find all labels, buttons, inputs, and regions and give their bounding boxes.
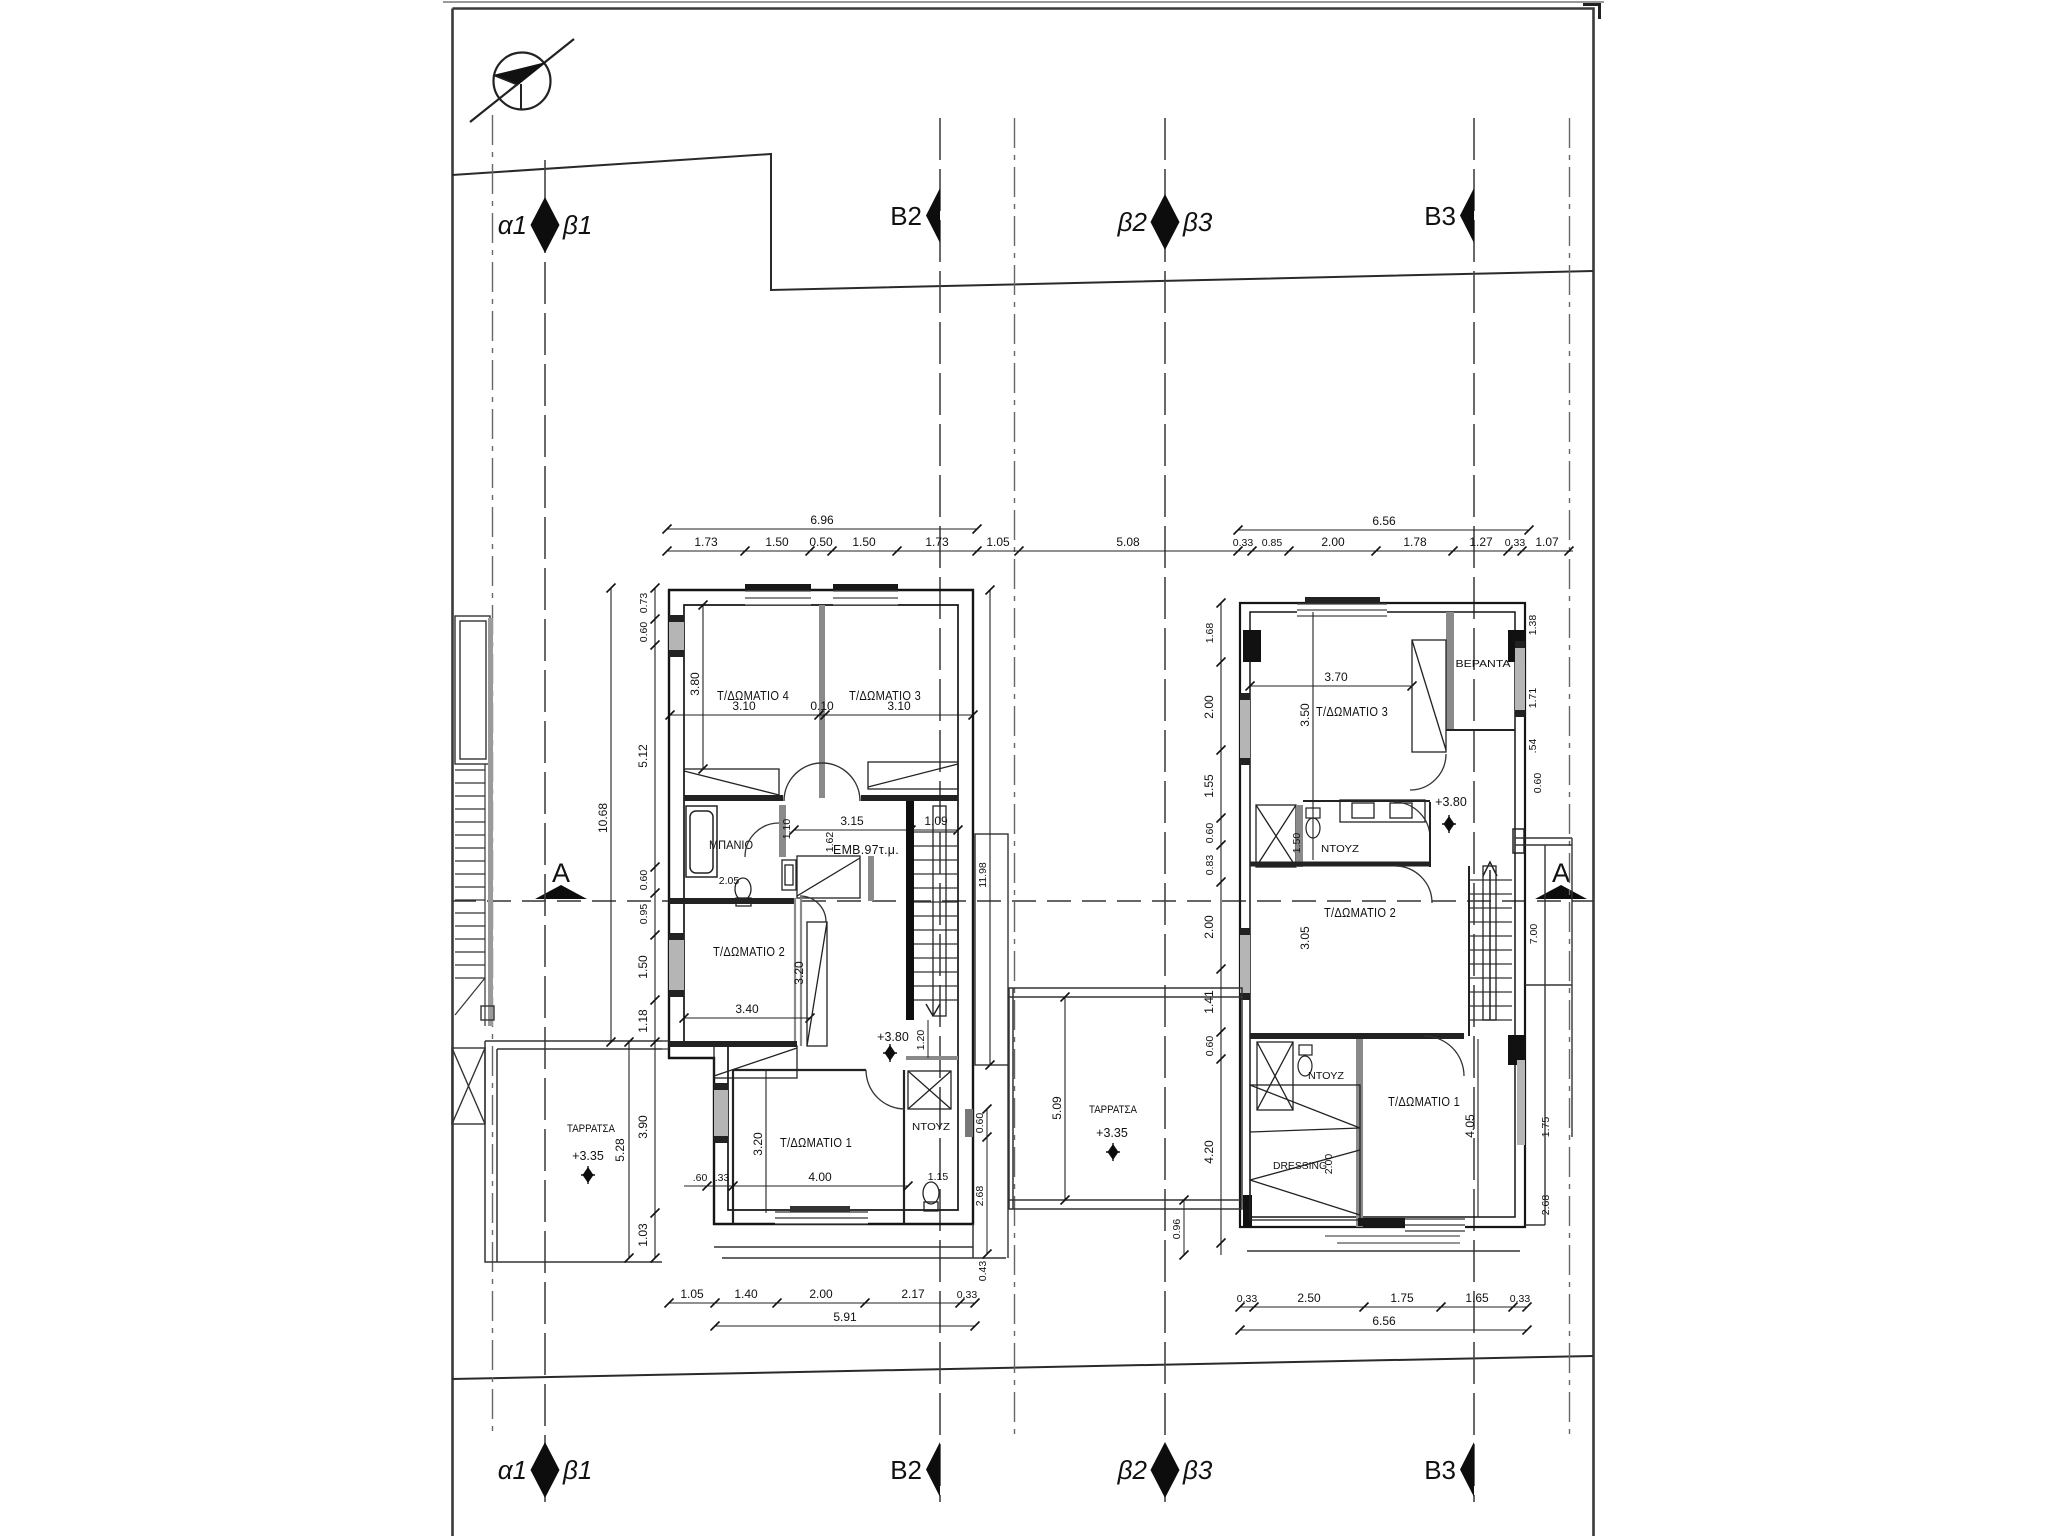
house1 stair shaft left wall [906, 801, 914, 1020]
dim chain house1 top [663, 535, 1024, 556]
svg-text:5.91: 5.91 [833, 1310, 857, 1324]
svg-text:1.40: 1.40 [734, 1287, 758, 1301]
svg-text:3.05: 3.05 [1298, 926, 1312, 950]
svg-text:0.73: 0.73 [638, 593, 650, 614]
house2 room3 dim 3.50 rotated [1298, 612, 1313, 860]
house1 room2 right wall double [795, 898, 801, 1046]
svg-text:4.05: 4.05 [1463, 1114, 1477, 1138]
svg-text:0.33: 0.33 [1510, 1293, 1531, 1305]
dim 10.68 [596, 584, 616, 1047]
house2 stair left wall [1468, 866, 1470, 1036]
house1 room2 dim 3.40 [680, 1002, 815, 1023]
svg-text:1.50: 1.50 [636, 955, 650, 979]
house2 room3 door arc [1410, 754, 1446, 790]
svg-text:3.10: 3.10 [732, 699, 756, 713]
svg-text:Τ/ΔΩΜΑΤΙΟ 3: Τ/ΔΩΜΑΤΙΟ 3 [1316, 705, 1388, 719]
house2 wc lower [1298, 1045, 1312, 1076]
svg-text:1.20: 1.20 [915, 1030, 927, 1051]
house1 closet room3 [868, 762, 958, 789]
svg-text:0.83: 0.83 [1204, 855, 1216, 876]
house1 outer wall outline [669, 590, 973, 1224]
svg-text:ΤΑΡΡΑΤΣΑ: ΤΑΡΡΑΤΣΑ [1089, 1104, 1138, 1116]
house2 wall above room1 [1250, 1033, 1464, 1039]
house1 top wall window 1 [745, 584, 811, 605]
svg-text:0.96: 0.96 [1171, 1219, 1183, 1240]
svg-text:4.20: 4.20 [1202, 1140, 1216, 1164]
house2 right eave lines [1515, 837, 1572, 839]
house2 veranda window right [1515, 641, 1525, 717]
svg-text:+3.80: +3.80 [1435, 795, 1467, 809]
house2 room2 door arc [1395, 866, 1432, 903]
svg-text:0.10: 0.10 [810, 699, 834, 713]
house1 interior dim 3.10/0.10/3.10 [666, 699, 978, 720]
house1 closet room4 [684, 769, 779, 796]
svg-text:0.33: 0.33 [1233, 537, 1254, 549]
left closet X [452, 1048, 485, 1124]
svg-text:ΒΕΡΑΝΤΑ: ΒΕΡΑΝΤΑ [1456, 658, 1511, 670]
axis grid line beta2-beta3 x=1165 [1164, 118, 1166, 1502]
house1 closet band between room2 and room1 [714, 1046, 797, 1078]
house2 right balcony strip [1525, 845, 1572, 1225]
house1 hall wall seg [868, 856, 874, 901]
left chain ticks [636, 584, 660, 1263]
svg-text:0.33: 0.33 [1237, 1293, 1258, 1305]
house1 wc bottom [923, 1182, 939, 1211]
svg-text:B2: B2 [890, 1455, 922, 1485]
svg-text:3.15: 3.15 [840, 814, 864, 828]
svg-text:1.68: 1.68 [1204, 623, 1216, 644]
house1 left wall window room4 [669, 615, 684, 657]
house1 room1 walls [733, 1070, 904, 1224]
svg-text:1.50: 1.50 [852, 535, 876, 549]
svg-text:1.41: 1.41 [1202, 990, 1216, 1014]
house2 basin counter [1340, 800, 1425, 822]
svg-text:1.15: 1.15 [928, 1171, 949, 1183]
svg-text:2.50: 2.50 [1297, 1291, 1321, 1305]
svg-text:B3: B3 [1424, 1455, 1456, 1485]
house2 top wall window [1297, 597, 1387, 616]
svg-text:1.07: 1.07 [1535, 535, 1559, 549]
svg-text:1.65: 1.65 [1465, 1291, 1489, 1305]
svg-text:ΝΤΟΥΖ: ΝΤΟΥΖ [1321, 844, 1359, 855]
svg-text:4.00: 4.00 [808, 1170, 832, 1184]
house1 hall dim 3.15 / 1.09 [790, 814, 963, 835]
svg-text:B2: B2 [890, 201, 922, 231]
house1 hall-room2 door arc [800, 896, 826, 922]
north arrow [470, 39, 574, 122]
svg-text:1.50: 1.50 [1291, 833, 1303, 854]
svg-text:2.00: 2.00 [809, 1287, 833, 1301]
house1 bathroom door arc [745, 823, 779, 857]
svg-text:2.00: 2.00 [1202, 695, 1216, 719]
svg-text:5.28: 5.28 [613, 1138, 627, 1162]
house1 bathroom basin [782, 860, 796, 890]
svg-text:0.60: 0.60 [1204, 823, 1216, 844]
dim chain house1 bottom [665, 1287, 980, 1308]
svg-text:Τ/ΔΩΜΑΤΙΟ 2: Τ/ΔΩΜΑΤΙΟ 2 [713, 945, 785, 959]
house2 left wall window room3 [1240, 693, 1250, 765]
svg-text:3.80: 3.80 [688, 672, 702, 696]
dim 5.28 terrace [613, 1038, 634, 1263]
svg-text:ΤΑΡΡΑΤΣΑ: ΤΑΡΡΑΤΣΑ [567, 1123, 616, 1135]
left balcony top [455, 616, 490, 764]
house1 right overall dim 11.98 [977, 586, 995, 1070]
svg-text:α1: α1 [498, 1455, 527, 1485]
house1 bathroom wc [735, 878, 751, 906]
svg-text:+3.35: +3.35 [1096, 1126, 1128, 1140]
svg-text:β1: β1 [562, 210, 592, 240]
svg-text:6.56: 6.56 [1372, 514, 1396, 528]
svg-text:0.43: 0.43 [977, 1261, 989, 1282]
house1 stair treads [914, 832, 958, 1000]
svg-text:β3: β3 [1182, 207, 1213, 237]
left terrace outline [485, 1041, 662, 1262]
house1 bottom window [775, 1206, 868, 1224]
svg-text:2.05: 2.05 [719, 875, 740, 887]
house2 veranda wall [1446, 612, 1454, 730]
house2 room1 dim 4.05 rotated [1463, 1039, 1478, 1217]
axis marker beta2-beta3 bottom [1117, 1442, 1213, 1498]
axis marker B3 top [1424, 188, 1474, 243]
left exterior stairs [455, 764, 485, 1026]
svg-text:ΕΜΒ.97τ.μ.: ΕΜΒ.97τ.μ. [833, 843, 899, 857]
axis marker alpha1-beta1 bottom [498, 1442, 593, 1498]
axis grid line B2 x=940 [939, 118, 941, 1502]
house2 left wall window room2 [1240, 928, 1250, 1000]
svg-text:.54: .54 [1527, 739, 1539, 754]
dim chain house2 top [1233, 535, 1574, 556]
axis grid line x=492 [492, 115, 494, 1437]
house1 left wall window room1 [714, 1083, 728, 1143]
house1 stair arrow [926, 1004, 940, 1016]
svg-text:0.33: 0.33 [1505, 537, 1526, 549]
axis grid line alpha1-beta1 x=545 [544, 160, 546, 1502]
svg-text:3.40: 3.40 [735, 1002, 759, 1016]
axis grid line B3 x=1474 [1473, 118, 1475, 1502]
house1 room1 door arc [866, 1070, 905, 1109]
dim 5.08 between houses [1019, 535, 1243, 556]
axis marker beta2-beta3 top [1117, 194, 1213, 250]
svg-text:β2: β2 [1117, 207, 1148, 237]
dim 5.91 house1 bottom [711, 1310, 980, 1331]
house1 room1 dim 4.00 [684, 1170, 913, 1191]
house1 stair rail [933, 806, 946, 1016]
house1 dim 1.20 rotated [915, 1020, 928, 1058]
house2 dressing area [1250, 1085, 1360, 1220]
section marker A left [535, 858, 587, 899]
house2 stairs [1469, 880, 1512, 1020]
house1 door arcs rooms 4/3 [784, 763, 822, 801]
house1 level marker +3.80 [877, 1030, 909, 1062]
house1 interior dim 3.80 room4 [688, 601, 708, 774]
house2 ntouz upper walls [1296, 805, 1303, 867]
house2 bottom window [1325, 1218, 1465, 1243]
house1 room1 dim 3.20 rotated [751, 1070, 766, 1213]
svg-text:3.20: 3.20 [751, 1132, 765, 1156]
house2 room1 door arc [1424, 1036, 1464, 1076]
middle terrace outline [1009, 988, 1242, 1209]
house2 room1 left wall [1356, 1039, 1363, 1227]
axis grid line x=1569 [1569, 118, 1571, 1437]
svg-text:3.10: 3.10 [887, 699, 911, 713]
house1 room2 bottom wall [669, 1041, 797, 1047]
svg-text:0.60: 0.60 [974, 1113, 986, 1134]
axis marker B3 bottom [1424, 1442, 1474, 1497]
house2 room3 closet [1412, 640, 1446, 752]
svg-text:0.50: 0.50 [809, 535, 833, 549]
svg-text:1.03: 1.03 [636, 1223, 650, 1247]
svg-text:0.60: 0.60 [1204, 1036, 1216, 1057]
svg-text:6.96: 6.96 [810, 513, 834, 527]
svg-text:1.38: 1.38 [1527, 615, 1539, 636]
svg-text:Τ/ΔΩΜΑΤΙΟ 2: Τ/ΔΩΜΑΤΙΟ 2 [1324, 906, 1396, 920]
svg-text:2.00: 2.00 [1323, 1154, 1335, 1175]
svg-text:1.27: 1.27 [1469, 535, 1493, 549]
middle terrace dim 5.09 rotated [1050, 993, 1070, 1205]
svg-text:1.73: 1.73 [925, 535, 949, 549]
house1 partition wall rooms 4/3 [819, 605, 825, 798]
svg-text:A: A [552, 858, 570, 888]
dim 6.96 house1 [663, 513, 982, 534]
svg-text:ΝΤΟΥΖ: ΝΤΟΥΖ [1308, 1071, 1344, 1082]
axis marker B2 bottom [890, 1442, 940, 1497]
border corner tick top-right [1583, 5, 1600, 20]
svg-text:1.50: 1.50 [765, 535, 789, 549]
section line A-A [452, 900, 1593, 902]
svg-text:0.60: 0.60 [638, 622, 650, 643]
svg-text:Τ/ΔΩΜΑΤΙΟ 1: Τ/ΔΩΜΑΤΙΟ 1 [780, 1136, 852, 1150]
svg-text:3.70: 3.70 [1324, 670, 1348, 684]
svg-text:β1: β1 [562, 1455, 592, 1485]
svg-text:2.68: 2.68 [1540, 1195, 1552, 1216]
house2 outer wall outline [1240, 603, 1525, 1227]
house2 shower X lower [1257, 1042, 1293, 1110]
svg-text:+3.35: +3.35 [572, 1149, 604, 1163]
svg-text:.33: .33 [715, 1172, 730, 1184]
svg-text:5.09: 5.09 [1050, 1096, 1064, 1120]
svg-text:3.50: 3.50 [1298, 703, 1312, 727]
house2 wc upper [1306, 808, 1320, 838]
house1 wall seg right of ntouz [965, 1109, 973, 1137]
house2 shower X upper [1256, 805, 1296, 867]
house2 bottom parapet [1247, 1250, 1520, 1252]
dim 6.56 house2 top [1234, 514, 1534, 535]
house1 bathroom bottom wall [669, 898, 794, 904]
svg-text:0.60: 0.60 [638, 870, 650, 891]
page top thin line [443, 1, 1604, 3]
house1 ntouz closet X [908, 1071, 951, 1109]
house2 level marker +3.80 [1435, 795, 1467, 833]
svg-text:0.85: 0.85 [1262, 537, 1283, 549]
house2 corner columns [1243, 630, 1261, 662]
house1 hall closet above room2 [797, 856, 860, 898]
svg-text:.60: .60 [693, 1172, 708, 1184]
site boundary bottom [452, 1356, 1593, 1379]
svg-text:2.68: 2.68 [974, 1186, 986, 1207]
svg-text:A: A [1552, 858, 1570, 888]
svg-text:+3.80: +3.80 [877, 1030, 909, 1044]
house1 stair landing wall [906, 1056, 958, 1060]
svg-text:α1: α1 [498, 210, 527, 240]
house1 room2 tall closet [807, 922, 827, 1046]
house1 left wall window room2 [669, 933, 684, 997]
svg-text:10.68: 10.68 [596, 803, 610, 833]
svg-text:1.05: 1.05 [680, 1287, 704, 1301]
svg-text:1.75: 1.75 [1540, 1117, 1552, 1138]
svg-text:ΝΤΟΥΖ: ΝΤΟΥΖ [912, 1122, 950, 1133]
svg-text:3.90: 3.90 [636, 1115, 650, 1139]
axis marker alpha1-beta1 top [498, 197, 593, 253]
left strip gray edge [488, 618, 493, 1026]
svg-text:1.10: 1.10 [781, 819, 793, 840]
house1 porch strip right [975, 834, 1008, 1065]
house1 inner wall line [684, 605, 958, 1210]
svg-text:5.08: 5.08 [1116, 535, 1140, 549]
dim chain house2 bottom [1236, 1291, 1532, 1312]
svg-text:Τ/ΔΩΜΑΤΙΟ 1: Τ/ΔΩΜΑΤΙΟ 1 [1388, 1095, 1460, 1109]
svg-text:β2: β2 [1117, 1455, 1148, 1485]
svg-text:B3: B3 [1424, 201, 1456, 231]
svg-text:1.75: 1.75 [1390, 1291, 1414, 1305]
house2 stair rail and arrow [1483, 866, 1496, 1020]
svg-text:2.17: 2.17 [901, 1287, 925, 1301]
site boundary top [452, 154, 1593, 290]
house2 door arc hall [1394, 802, 1430, 838]
house1 corridor wall below rooms 4/3 [684, 795, 958, 801]
svg-text:6.56: 6.56 [1372, 1314, 1396, 1328]
axis marker B2 top [890, 188, 940, 243]
svg-text:1.55: 1.55 [1202, 774, 1216, 798]
svg-text:5.12: 5.12 [636, 744, 650, 768]
dim 6.56 house2 bottom [1236, 1314, 1532, 1335]
house1 bathroom tub [686, 806, 717, 877]
dim 0.96 below terrace [1171, 1196, 1189, 1260]
section marker A right [1535, 858, 1587, 899]
svg-text:β3: β3 [1182, 1455, 1213, 1485]
svg-text:3.20: 3.20 [792, 961, 806, 985]
svg-text:0.95: 0.95 [638, 904, 650, 925]
house1 top wall window 2 [833, 584, 898, 605]
house1 bottom parapet lines [714, 1246, 973, 1248]
drawing border frame [453, 9, 1594, 1536]
svg-text:1.18: 1.18 [636, 1009, 650, 1033]
svg-text:11.98: 11.98 [977, 862, 989, 888]
house1 dim 0.60 right rotated [974, 1105, 992, 1142]
house2 inner wall line [1250, 612, 1515, 1217]
house1 dim 2.68 right rotated [974, 1137, 992, 1259]
svg-text:7.00: 7.00 [1528, 924, 1540, 945]
svg-text:0.33: 0.33 [957, 1289, 978, 1301]
svg-text:1.78: 1.78 [1403, 535, 1427, 549]
svg-text:1.71: 1.71 [1527, 688, 1539, 709]
house2 room3 dim 3.70 [1246, 670, 1417, 691]
svg-text:1.05: 1.05 [986, 535, 1010, 549]
svg-text:2.00: 2.00 [1202, 915, 1216, 939]
svg-text:0.60: 0.60 [1532, 773, 1544, 794]
svg-text:1.73: 1.73 [694, 535, 718, 549]
svg-text:2.00: 2.00 [1321, 535, 1345, 549]
axis grid line x=1014 [1014, 118, 1016, 1434]
svg-text:1.09: 1.09 [924, 814, 948, 828]
svg-text:DRESSING: DRESSING [1273, 1160, 1327, 1172]
connection line terrace to house [662, 1040, 669, 1042]
house1 bathroom partition [779, 805, 786, 857]
left small rect below stairs [481, 1006, 494, 1020]
